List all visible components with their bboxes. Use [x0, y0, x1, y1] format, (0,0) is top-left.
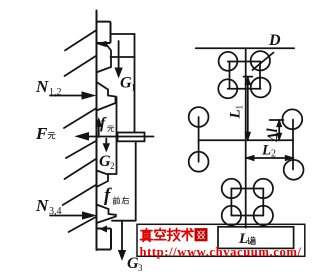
svg-text:1: 1	[235, 105, 245, 110]
RIGHT DIAGRAM	[189, 48, 304, 248]
footboard	[218, 227, 294, 249]
svg-text:http://www.chvacuum.com/: http://www.chvacuum.com/	[140, 245, 302, 259]
slash through drive wheel	[253, 53, 274, 71]
RIGHT LABELS	[228, 32, 282, 247]
glyph wu (subscript of f)	[107, 126, 113, 132]
arrow f up (friction)	[98, 125, 100, 137]
axle support member	[116, 97, 118, 174]
LABELS LEFT	[35, 75, 143, 274]
glyph ta (subscript of L footboard)	[248, 237, 255, 244]
arrow G1	[118, 41, 120, 69]
glyph hou (subscript of f2)	[122, 197, 129, 204]
svg-text:L: L	[228, 109, 244, 119]
dim L2	[246, 157, 293, 159]
glyph kong	[154, 228, 165, 239]
top wheel group axle lines	[228, 61, 261, 63]
bottom slider block	[97, 229, 112, 250]
pawl 3	[97, 171, 109, 188]
centre line	[245, 48, 247, 227]
bottom wheel group wheels	[222, 179, 241, 198]
pawl 4	[97, 205, 116, 224]
rail (guide column)	[96, 11, 98, 251]
arrow G2	[105, 139, 107, 145]
watermark CJK title strokes	[141, 228, 207, 241]
dim delta-l	[270, 119, 284, 121]
svg-text:1,2: 1,2	[49, 87, 62, 98]
arrow G3	[121, 221, 123, 251]
support shoulder	[108, 173, 117, 175]
label L1 rotated	[228, 105, 245, 120]
svg-text:F: F	[35, 124, 48, 143]
right vertical member lower	[135, 141, 137, 220]
label delta-l rotated	[265, 128, 281, 142]
pawl 1	[98, 44, 112, 72]
middle left wheels	[189, 107, 209, 127]
glyph qian (subscript of f2)	[113, 197, 120, 204]
wheel link stubs	[229, 62, 231, 89]
svg-text:Δl: Δl	[265, 128, 281, 142]
svg-text:D: D	[268, 32, 281, 49]
watermark box	[137, 224, 305, 256]
upper bracket box	[111, 34, 135, 57]
top slider block	[97, 22, 111, 43]
svg-text:N: N	[35, 196, 49, 215]
lower cross bar	[112, 220, 136, 222]
arrow N12	[50, 95, 83, 97]
middle right wheels	[282, 109, 302, 129]
CJK small subscripts (hand-drawn)	[48, 126, 255, 244]
arrow N34	[50, 215, 83, 217]
glyph zhen	[141, 229, 153, 242]
WATERMARK	[137, 224, 305, 258]
glyph shu	[181, 229, 193, 241]
top wheel group wheels	[219, 52, 238, 71]
arrow F (leftward)	[76, 133, 89, 140]
pawl 2	[97, 82, 116, 111]
svg-text:3,4: 3,4	[49, 206, 62, 217]
top rail line D	[196, 47, 295, 49]
svg-text:1: 1	[131, 83, 136, 93]
glyph ji	[168, 228, 180, 240]
pawl 1 latch tip	[98, 42, 107, 47]
glyph wu (subscript of F)	[48, 133, 55, 139]
svg-text:2: 2	[271, 149, 276, 160]
svg-text:2: 2	[110, 161, 115, 171]
svg-text:3: 3	[138, 263, 143, 273]
svg-text:N: N	[35, 77, 49, 96]
svg-text:L: L	[261, 143, 271, 159]
glyph wang (bold)	[195, 229, 207, 241]
bottom wheel group axle lines	[231, 188, 263, 190]
right vertical member	[134, 57, 136, 133]
main axle line	[199, 139, 294, 141]
axle mid line with F pull line	[88, 136, 154, 138]
wheel link stubs bottom	[230, 189, 232, 216]
dim L1 line	[247, 77, 249, 140]
pawl 4 latch tip	[101, 226, 107, 231]
axle hub	[118, 133, 145, 142]
hatch lines on wall	[65, 31, 96, 51]
